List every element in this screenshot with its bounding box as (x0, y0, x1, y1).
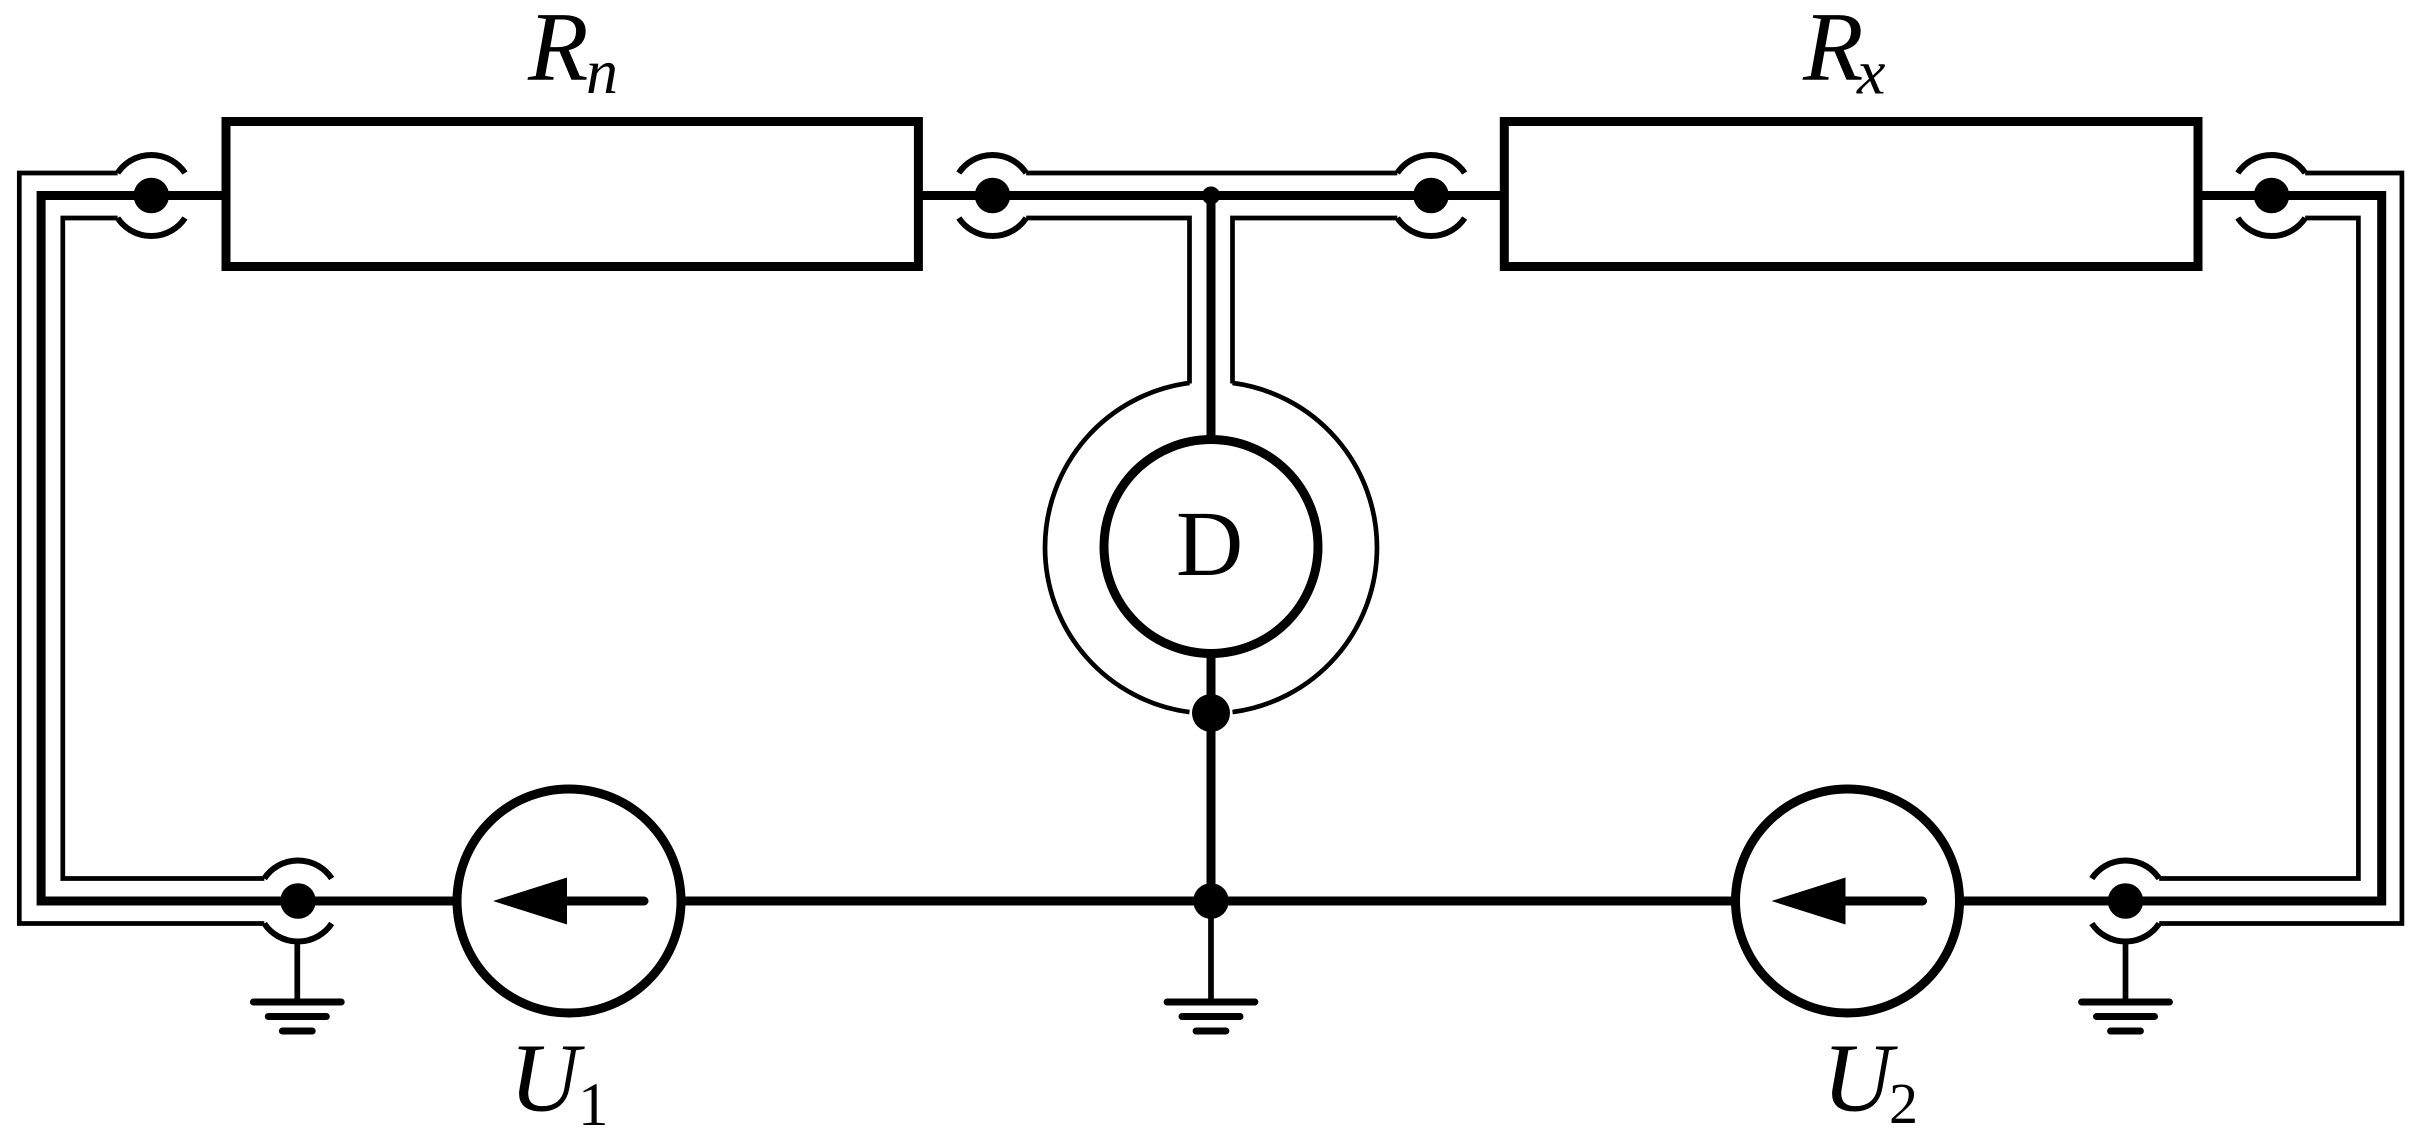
svg-text:2: 2 (1889, 1071, 1918, 1132)
svg-text:D: D (1176, 493, 1243, 596)
svg-text:R: R (1802, 0, 1863, 102)
svg-text:R: R (527, 0, 588, 102)
ground (bottom center) (1167, 901, 1255, 1031)
coaxial connector A (left of Rn) (118, 155, 185, 236)
detector D (circle) (1104, 440, 1318, 654)
source U1 arrow (567, 897, 644, 906)
shield top middle upper run (1026, 171, 1397, 176)
coaxial connector B (right of Rn) (959, 155, 1026, 236)
node bottom center junction (1193, 883, 1229, 919)
wire center conductor left loop (Rn left to U1 via bottom-left) (41, 196, 462, 902)
wire detector top lead (1207, 192, 1216, 444)
detector shield (broken circle screen) (1045, 383, 1189, 712)
source U2 (circle) (1736, 789, 1960, 1013)
shield outer left (coax screen) (19, 173, 264, 924)
wire center conductor right loop (Rx right to U2 via bottom-right) (1957, 196, 2382, 902)
ground (bottom left) (253, 939, 341, 1031)
shield top middle lower-left run into detector tube (1026, 218, 1189, 384)
svg-text:n: n (586, 36, 618, 107)
resistor Rx (1504, 122, 2198, 267)
wire bottom (U1 to U2 through center node) (679, 897, 1737, 906)
shield inner right (coax screen) (2159, 218, 2358, 879)
resistor Rn (226, 122, 918, 267)
wire center conductor top middle (Rn right to Rx left) (916, 191, 1506, 200)
coaxial connector G1 (bottom left, grounded) (264, 860, 331, 941)
svg-text:x: x (1856, 37, 1885, 108)
source U1 (circle) (457, 789, 681, 1013)
shield outer right (coax screen) (2159, 173, 2402, 924)
node T (top center junction) (1202, 187, 1220, 205)
svg-text:U: U (1823, 1025, 1899, 1132)
svg-text:U: U (510, 1025, 586, 1132)
ground (bottom right) (2082, 939, 2170, 1031)
node on detector shield bottom (1192, 694, 1230, 732)
shield inner left (coax screen) (63, 218, 264, 879)
coaxial connector G2 (bottom right, grounded) (2092, 860, 2159, 941)
source U2 arrow (1846, 897, 1923, 906)
shield top middle lower-right run into detector tube (1233, 218, 1398, 384)
coaxial connector C (left of Rx) (1397, 155, 1464, 236)
svg-text:1: 1 (578, 1072, 609, 1132)
coaxial connector F (right of Rx) (2238, 155, 2305, 236)
wire detector bottom lead (1207, 650, 1216, 901)
